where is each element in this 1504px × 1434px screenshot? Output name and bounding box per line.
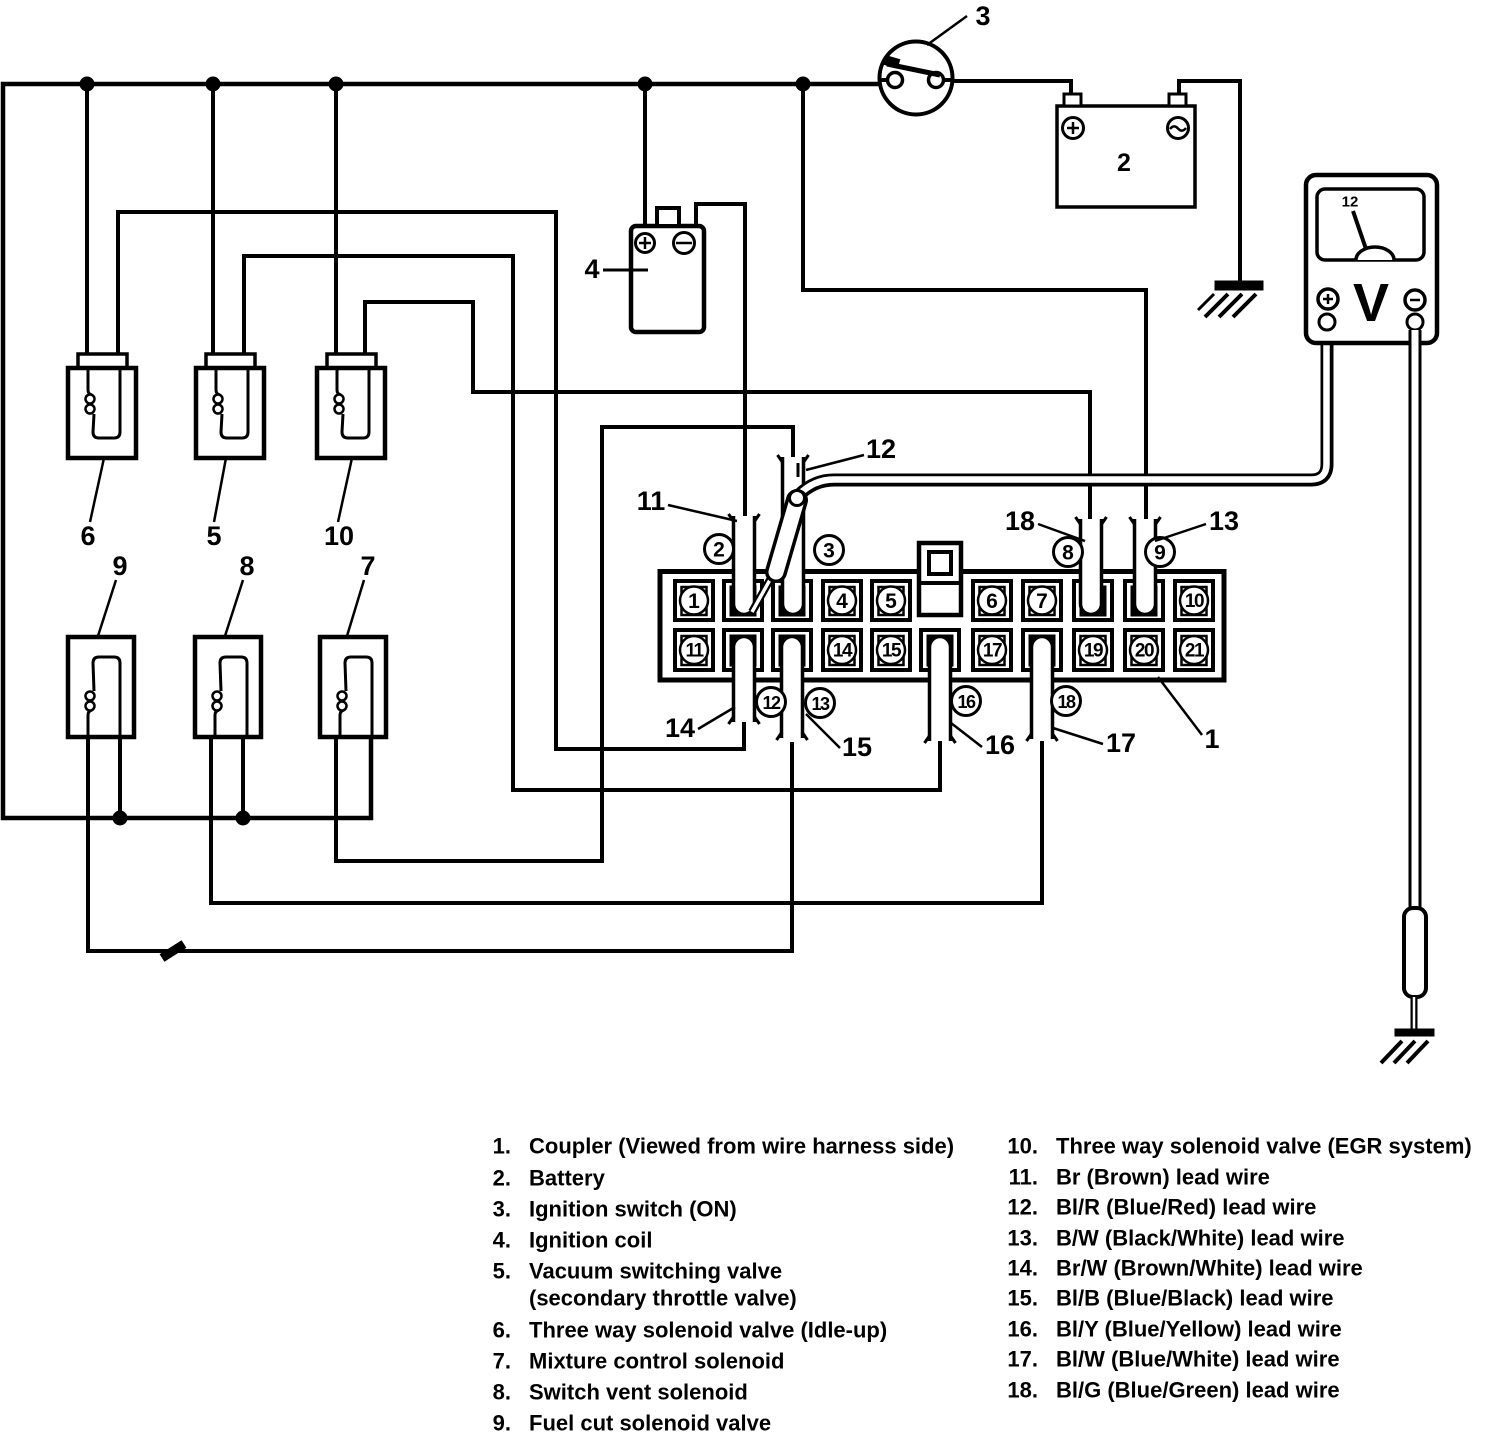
negative probe tip: [1411, 997, 1418, 1031]
svg-text:18: 18: [1005, 506, 1035, 536]
label 11: [668, 505, 737, 521]
battery 2: [1057, 106, 1195, 207]
wire: battery negative to ground: [1179, 81, 1240, 281]
coupler pocket 1: [675, 581, 713, 620]
svg-text:16: 16: [985, 730, 1015, 760]
svg-text:2.: 2.: [493, 1166, 511, 1191]
svg-text:21: 21: [1185, 641, 1205, 662]
wire: solenoid 8 right to return bus: [241, 737, 245, 818]
terminal marker circle 16: [952, 687, 981, 716]
svg-text:1.: 1.: [493, 1134, 511, 1159]
label 10: [338, 458, 352, 522]
switch vent solenoid 8: [195, 637, 261, 737]
label 7: [347, 580, 364, 636]
wire: solenoid 8 left to coupler terminal 18: [211, 737, 1042, 903]
svg-text:Switch vent solenoid: Switch vent solenoid: [529, 1380, 748, 1405]
lead wire stub terminal 18 (Bl/W): [1032, 637, 1053, 740]
wire: solenoid 10 left feed: [334, 84, 338, 356]
svg-text:3: 3: [975, 1, 990, 31]
lead wire stub terminal 13 (Bl/B): [782, 637, 803, 739]
lead wire stub terminal 9 (B/W): [1135, 519, 1156, 615]
junction dots on power bus: [80, 77, 95, 92]
label 14: [698, 707, 735, 729]
ignition coil 4: [631, 226, 704, 332]
svg-text:V: V: [1353, 273, 1389, 333]
terminal marker circle 8: [1054, 538, 1083, 567]
wire: solenoid 9 left to coupler terminal 13: [88, 737, 792, 951]
svg-text:4.: 4.: [493, 1228, 511, 1253]
svg-text:14: 14: [665, 713, 695, 743]
svg-text:9: 9: [112, 551, 127, 581]
voltmeter needle: [1353, 211, 1366, 249]
svg-text:13: 13: [1209, 506, 1239, 536]
junction dots on lower-left return bus: [113, 811, 128, 826]
svg-text:2: 2: [713, 539, 725, 562]
coupler pocket 8: [1074, 581, 1112, 620]
coupler pocket 4: [823, 581, 861, 620]
svg-text:5: 5: [885, 590, 897, 613]
svg-text:7: 7: [360, 551, 375, 581]
wire: ignition coil feed: [643, 84, 647, 226]
label 16: [951, 723, 982, 747]
svg-text:Battery: Battery: [529, 1166, 606, 1191]
tick mark on terminal-13 wire: [162, 944, 184, 958]
coupler pocket 12: [724, 630, 762, 670]
svg-text:6: 6: [80, 521, 95, 551]
svg-text:Bl/Y (Blue/Yellow) lead wire: Bl/Y (Blue/Yellow) lead wire: [1056, 1317, 1342, 1342]
svg-text:19: 19: [1084, 641, 1103, 662]
label 4: [603, 269, 648, 272]
lead wire stub terminal 8 (Bl/G): [1081, 519, 1102, 615]
coupler pocket 10: [1175, 581, 1213, 620]
coupler 1 body: [660, 572, 1224, 681]
coupler pocket 7: [1023, 581, 1061, 620]
svg-text:Three way solenoid valve (EGR: Three way solenoid valve (EGR system): [1056, 1134, 1472, 1159]
wire: solenoid 5 left feed: [211, 84, 215, 356]
coupler pocket 11: [675, 630, 713, 670]
svg-text:10: 10: [1185, 591, 1204, 612]
voltmeter test lead tube (negative): [1409, 330, 1422, 908]
ground (battery): [1215, 281, 1263, 290]
three way solenoid valve 6 (Idle-up): [78, 354, 127, 368]
svg-text:1: 1: [688, 590, 700, 613]
svg-text:16: 16: [957, 692, 976, 712]
wire: ignition coil output to coupler terminal 2: [696, 204, 745, 518]
terminal marker circle 2: [705, 535, 734, 564]
svg-text:13.: 13.: [1007, 1226, 1038, 1251]
label 9: [98, 580, 116, 636]
svg-text:B/W (Black/White) lead wire: B/W (Black/White) lead wire: [1056, 1226, 1345, 1251]
coupler pocket 6: [973, 581, 1011, 620]
svg-text:Bl/B (Blue/Black) lead wire: Bl/B (Blue/Black) lead wire: [1056, 1286, 1334, 1311]
coupler pocket 16: [921, 630, 959, 670]
label 3: [927, 16, 967, 45]
svg-text:12.: 12.: [1007, 1195, 1038, 1220]
svg-text:7.: 7.: [493, 1349, 511, 1374]
coupler pocket 18: [1023, 630, 1061, 670]
ignition switch 3: [880, 42, 953, 115]
svg-text:17.: 17.: [1007, 1347, 1038, 1372]
svg-text:8: 8: [239, 551, 254, 581]
svg-text:10.: 10.: [1007, 1134, 1038, 1159]
svg-text:1: 1: [1204, 724, 1219, 754]
svg-text:9: 9: [1154, 542, 1166, 565]
coupler pocket 17: [973, 630, 1011, 670]
wire: solenoid 6 right to coupler terminal 12: [118, 212, 744, 749]
voltmeter positive terminal: [1318, 289, 1338, 309]
voltmeter scale arc: [1356, 247, 1394, 260]
svg-text:Br/W (Brown/White) lead wire: Br/W (Brown/White) lead wire: [1056, 1256, 1363, 1281]
svg-text:14.: 14.: [1007, 1256, 1038, 1281]
svg-text:3: 3: [823, 540, 835, 563]
wire: solenoid 6 left feed: [85, 84, 89, 356]
label 1: [1158, 677, 1202, 735]
coupler pocket 21: [1175, 630, 1213, 670]
wire: solenoid 9 right to return bus: [118, 737, 122, 818]
coupler pocket 14: [823, 630, 861, 670]
svg-text:5.: 5.: [493, 1259, 511, 1284]
svg-text:12: 12: [762, 693, 781, 713]
svg-text:11.: 11.: [1009, 1165, 1038, 1190]
label 13: [1155, 524, 1206, 541]
svg-text:6.: 6.: [493, 1318, 511, 1343]
wire: solenoid 10 right to coupler terminal 8: [365, 302, 1090, 521]
terminal marker circle 13: [806, 689, 835, 718]
label 12 (probe): [806, 455, 864, 470]
coupler pocket 9: [1125, 581, 1163, 620]
vacuum switching valve 5: [206, 354, 255, 368]
svg-text:Ignition switch (ON): Ignition switch (ON): [529, 1197, 737, 1222]
coupler pocket 15: [872, 630, 910, 670]
terminal marker circle 9: [1146, 538, 1175, 567]
wire: coupler terminal 3 loop to solenoid 7 left: [336, 427, 793, 861]
svg-text:10: 10: [324, 521, 354, 551]
wire: solenoid 5 right to coupler terminal 16: [244, 256, 940, 790]
terminal marker circle 12: [757, 688, 786, 717]
wire: main power bus with left-edge return: [3, 84, 880, 818]
svg-text:14: 14: [833, 641, 853, 662]
svg-text:11: 11: [637, 486, 666, 516]
svg-text:Vacuum switching valve: Vacuum switching valve: [529, 1259, 782, 1284]
svg-text:13: 13: [811, 694, 830, 714]
lead wire stub terminal 16 (Bl/Y): [930, 637, 951, 742]
label 5: [214, 458, 226, 522]
svg-text:7: 7: [1036, 590, 1048, 613]
svg-text:15.: 15.: [1007, 1286, 1038, 1311]
svg-text:8: 8: [1062, 542, 1074, 565]
coupler pocket 20: [1125, 630, 1163, 670]
svg-text:3.: 3.: [493, 1197, 511, 1222]
svg-text:Coupler (Viewed from wire harn: Coupler (Viewed from wire harness side): [529, 1134, 954, 1159]
label 15: [806, 714, 840, 748]
svg-text:18.: 18.: [1007, 1378, 1038, 1403]
coupler key tab: [919, 543, 961, 615]
svg-text:17: 17: [983, 641, 1002, 662]
ground (negative probe): [1395, 1029, 1434, 1036]
label 6: [90, 458, 104, 522]
svg-text:4: 4: [836, 590, 848, 613]
terminal marker circle 3: [815, 536, 844, 565]
svg-text:Bl/W (Blue/White) lead wire: Bl/W (Blue/White) lead wire: [1056, 1347, 1340, 1372]
svg-text:20: 20: [1135, 641, 1154, 662]
lead wire stub terminal 12 (Br/W): [734, 637, 755, 723]
svg-text:Three way solenoid valve (Idle: Three way solenoid valve (Idle-up): [529, 1318, 887, 1343]
voltmeter body: [1306, 175, 1437, 343]
mixture control solenoid 7: [320, 637, 386, 737]
wire: ignition switch junction to coupler terminal 9: [803, 84, 1146, 521]
terminal marker circle 18: [1052, 687, 1081, 716]
label 8: [225, 580, 243, 636]
svg-text:12: 12: [866, 434, 896, 464]
lead wire stub terminal 3 (Bl/R): [783, 457, 804, 615]
coupler pocket 5: [872, 581, 910, 620]
svg-text:5: 5: [206, 521, 221, 551]
three way solenoid valve 10 (EGR): [327, 354, 376, 368]
negative test probe: [1404, 908, 1426, 997]
svg-text:2: 2: [1117, 149, 1131, 177]
svg-text:Bl/R (Blue/Red) lead wire: Bl/R (Blue/Red) lead wire: [1056, 1195, 1316, 1220]
coupler pocket 2: [724, 581, 762, 620]
lead wire stub terminal 2 (Br): [734, 516, 755, 615]
svg-text:6: 6: [986, 590, 998, 613]
voltmeter negative terminal: [1405, 290, 1425, 310]
coupler pocket 13: [773, 630, 811, 670]
label 17: [1053, 728, 1103, 744]
svg-text:Ignition coil: Ignition coil: [529, 1228, 652, 1253]
svg-text:17: 17: [1106, 728, 1136, 758]
svg-text:Mixture control solenoid: Mixture control solenoid: [529, 1349, 784, 1374]
svg-text:Bl/G (Blue/Green) lead wire: Bl/G (Blue/Green) lead wire: [1056, 1378, 1340, 1403]
svg-text:4: 4: [584, 254, 599, 284]
svg-text:Br (Brown) lead wire: Br (Brown) lead wire: [1056, 1165, 1270, 1190]
svg-text:15: 15: [842, 732, 872, 762]
wire: switch to battery positive: [951, 81, 1071, 96]
fuel cut solenoid valve 9: [68, 637, 134, 737]
test probe 12 at terminal 3: [752, 569, 776, 612]
svg-text:(secondary throttle valve): (secondary throttle valve): [529, 1286, 797, 1311]
label 18: [1038, 524, 1085, 541]
svg-text:Fuel cut solenoid valve: Fuel cut solenoid valve: [529, 1411, 771, 1434]
svg-text:11: 11: [685, 641, 704, 662]
svg-text:16.: 16.: [1007, 1317, 1038, 1342]
svg-text:15: 15: [882, 641, 902, 662]
svg-text:12: 12: [1342, 194, 1359, 211]
svg-text:18: 18: [1057, 692, 1076, 712]
coupler pocket 19: [1074, 630, 1112, 670]
coupler pocket 3: [773, 581, 811, 620]
voltmeter test lead tube (positive) to probe: [799, 330, 1327, 495]
svg-text:8.: 8.: [493, 1380, 511, 1405]
svg-text:9.: 9.: [493, 1411, 511, 1434]
